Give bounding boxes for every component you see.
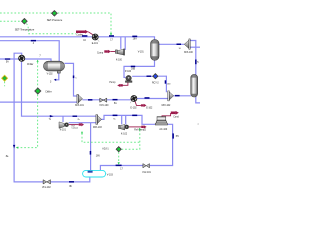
svg-text:16D: 16D: [167, 84, 171, 86]
svg-text:16V: 16V: [96, 156, 101, 158]
svg-text:E-101: E-101: [92, 43, 99, 45]
svg-text:MIX-101: MIX-101: [75, 105, 84, 107]
svg-text:RCY-2: RCY-2: [152, 83, 159, 85]
svg-text:Comp1: Comp1: [72, 128, 79, 130]
svg-text:E-102: E-102: [130, 108, 137, 110]
svg-text:K-102: K-102: [121, 134, 128, 136]
svg-text:SET-Pressure: SET-Pressure: [47, 19, 63, 22]
svg-text:MIX-102: MIX-102: [162, 105, 171, 107]
svg-text:16A: 16A: [133, 38, 138, 41]
svg-text:V-101: V-101: [138, 52, 145, 54]
svg-text:Cooler: Cooler: [76, 34, 83, 37]
svg-text:V-102: V-102: [47, 74, 54, 76]
svg-text:Comp: Comp: [97, 53, 104, 55]
svg-text:V-103: V-103: [107, 174, 114, 176]
svg-text:Chiller: Chiller: [45, 90, 52, 93]
svg-text:MIX-103: MIX-103: [93, 127, 102, 129]
svg-text:5A: 5A: [6, 61, 9, 64]
svg-text:Chiller: Chiller: [27, 63, 34, 66]
svg-text:Pump: Pump: [109, 82, 116, 84]
svg-text:P-100: P-100: [125, 71, 132, 73]
svg-text:E-102: E-102: [146, 107, 153, 109]
svg-text:16B: 16B: [131, 69, 136, 71]
svg-text:MIX-100: MIX-100: [184, 52, 193, 54]
svg-text:Cond: Cond: [173, 117, 179, 119]
svg-text:VLV-102: VLV-102: [42, 187, 51, 189]
svg-text:K-101: K-101: [60, 129, 67, 131]
svg-text:SET-Temperature: SET-Temperature: [15, 28, 35, 31]
svg-text:ADJ-1: ADJ-1: [102, 148, 109, 151]
svg-text:K-100: K-100: [116, 59, 123, 61]
svg-text:Ref Comp2: Ref Comp2: [134, 129, 146, 131]
svg-text:5A: 5A: [114, 102, 117, 105]
svg-text:AC-100: AC-100: [159, 128, 168, 131]
svg-text:VLV-101: VLV-101: [142, 172, 151, 174]
svg-text:VCV-100: VCV-100: [99, 105, 109, 107]
